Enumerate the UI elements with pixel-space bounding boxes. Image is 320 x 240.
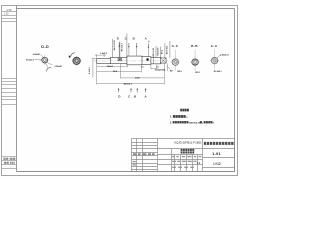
svg-text:C-C: C-C [172, 44, 179, 48]
svg-text:1-01: 1-01 [212, 152, 221, 156]
svg-text:M2x0.25: M2x0.25 [157, 47, 159, 56]
svg-text:2.1: 2.1 [156, 67, 159, 69]
svg-text:Φ2.5-0.01: Φ2.5-0.01 [152, 47, 155, 57]
svg-text:0.05x45°: 0.05x45° [55, 65, 63, 68]
svg-text:B-B: B-B [191, 44, 198, 48]
svg-text:45.5±0.1: 45.5±0.1 [124, 82, 133, 85]
svg-text:4.7±0.1: 4.7±0.1 [88, 66, 91, 74]
svg-text:D: D [118, 95, 120, 99]
svg-text:0.03±0.01: 0.03±0.01 [220, 55, 228, 57]
svg-text:1.2: 1.2 [141, 66, 144, 68]
svg-text:A: A [148, 39, 150, 43]
svg-text:LY12: LY12 [213, 162, 221, 166]
svg-text:Φ1.5±0.1: Φ1.5±0.1 [26, 59, 34, 62]
svg-text:Φ4.5-0.012: Φ4.5-0.012 [113, 39, 116, 50]
svg-text:B: B [133, 37, 135, 41]
svg-text:A-A: A-A [211, 44, 218, 48]
svg-text:0.05x45°: 0.05x45° [33, 53, 41, 56]
svg-text:XQJ5-1(FB11-F1B2): XQJ5-1(FB11-F1B2) [174, 141, 201, 145]
svg-text:Φ1.5±0.1: Φ1.5±0.1 [214, 70, 222, 73]
svg-text:1:20: 1:20 [4, 12, 9, 15]
svg-text:D: D [117, 37, 119, 41]
svg-text:Φ2-0.012: Φ2-0.012 [165, 45, 168, 54]
svg-text:GB1804-79(: GB1804-79( [189, 121, 201, 124]
svg-text:42°: 42° [170, 70, 173, 73]
svg-text:1.: 1. [170, 115, 172, 119]
svg-text:4.004±0.006: 4.004±0.006 [155, 68, 166, 71]
svg-text:Φ3.5±0.1: Φ3.5±0.1 [121, 42, 124, 51]
svg-text:D-D: D-D [41, 45, 49, 49]
svg-text:15±0.1: 15±0.1 [107, 66, 114, 68]
svg-text:B: B [134, 95, 136, 99]
svg-text:1.9±0.2: 1.9±0.2 [100, 53, 108, 55]
